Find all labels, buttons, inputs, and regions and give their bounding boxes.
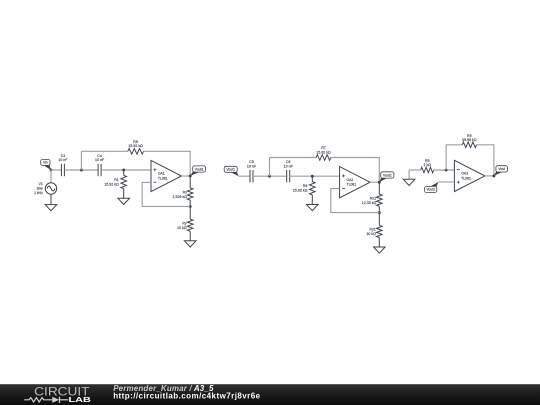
net flag Vout1	[190, 166, 205, 176]
svg-text:LAB: LAB	[69, 395, 91, 404]
resistor Rx	[173, 176, 193, 206]
node	[311, 175, 314, 178]
svg-text:Vin: Vin	[43, 161, 48, 165]
resistor R6	[128, 140, 144, 154]
voltage source V1 (sine 1 kHz)	[34, 170, 57, 205]
wire	[51, 169, 61, 171]
node Vin	[50, 169, 53, 172]
svg-text:10 nF: 10 nF	[247, 164, 257, 168]
node	[445, 169, 448, 172]
net flag Vout2	[379, 172, 394, 182]
footer text	[113, 384, 260, 400]
wire	[446, 144, 462, 146]
svg-text:Rx: Rx	[183, 190, 188, 194]
node	[268, 175, 271, 178]
svg-text:1 kHz: 1 kHz	[34, 191, 43, 195]
wire	[269, 158, 271, 177]
svg-text:V1: V1	[39, 182, 43, 186]
svg-text:Vout: Vout	[498, 167, 505, 171]
svg-text:OA3: OA3	[461, 172, 468, 176]
svg-text:1.529 kΩ: 1.529 kΩ	[173, 195, 188, 199]
resistor R8	[293, 176, 315, 204]
svg-text:OA1: OA1	[158, 172, 165, 176]
node Vout1	[189, 175, 192, 178]
svg-text:TL081: TL081	[158, 177, 168, 181]
svg-text:Vout2: Vout2	[426, 188, 435, 192]
svg-text:R1: R1	[114, 178, 119, 182]
svg-text:Vout2: Vout2	[383, 173, 392, 177]
net flag Vout	[494, 166, 508, 176]
wire	[64, 169, 98, 171]
wire	[144, 151, 191, 176]
resistor R9	[462, 134, 477, 148]
net flag Vin	[41, 160, 51, 171]
node	[189, 205, 192, 208]
ground	[45, 205, 57, 211]
node	[122, 169, 125, 172]
ground	[403, 179, 415, 185]
svg-text:OA2: OA2	[347, 178, 354, 182]
svg-text:Ry: Ry	[182, 221, 187, 225]
wire	[434, 169, 455, 171]
wire	[485, 175, 494, 177]
svg-text:Vout1: Vout1	[195, 167, 204, 171]
wire	[239, 175, 250, 177]
ground	[374, 247, 386, 253]
resistor R7	[316, 146, 331, 160]
svg-text:39.98 kΩ: 39.98 kΩ	[462, 138, 477, 142]
ground	[408, 170, 410, 179]
wire	[101, 169, 151, 171]
wire	[409, 169, 421, 171]
svg-text:10 nF: 10 nF	[284, 164, 294, 168]
wire	[142, 182, 190, 206]
svg-text:15.92 kΩ: 15.92 kΩ	[128, 144, 143, 148]
resistor Ry	[177, 206, 193, 240]
resistor Ry1	[366, 213, 382, 247]
svg-text:Vout1: Vout1	[226, 168, 235, 172]
op-amp OA1 (TL081)	[151, 160, 182, 191]
svg-text:15.92 kΩ: 15.92 kΩ	[316, 150, 331, 154]
wire	[270, 157, 317, 159]
capacitor C3	[58, 154, 68, 176]
node	[378, 211, 381, 214]
net flag Vout1	[224, 166, 239, 176]
wire	[331, 189, 380, 213]
svg-text:sine: sine	[37, 187, 43, 191]
svg-text:http://circuitlab.com/c4ktw7rj: http://circuitlab.com/c4ktw7rj8vr6e	[113, 391, 260, 400]
node	[80, 169, 83, 172]
wire	[290, 175, 340, 177]
svg-text:12.35 kΩ: 12.35 kΩ	[362, 201, 377, 205]
svg-text:Ry1: Ry1	[369, 228, 375, 232]
svg-text:10 kΩ: 10 kΩ	[177, 226, 187, 230]
svg-text:15.92 kΩ: 15.92 kΩ	[293, 189, 308, 193]
svg-text:TL081: TL081	[461, 176, 471, 180]
footer bar	[0, 384, 540, 405]
svg-text:10 nF: 10 nF	[95, 158, 105, 162]
capacitor C5	[247, 160, 257, 182]
wire	[253, 175, 287, 177]
node Vout	[492, 174, 495, 177]
CircuitLab logo	[24, 385, 91, 405]
ground	[118, 198, 130, 204]
svg-text:10 kΩ: 10 kΩ	[366, 232, 376, 236]
node Vout2	[378, 181, 381, 184]
op-amp OA2 (TL081)	[340, 167, 371, 198]
wire	[80, 151, 82, 170]
wire	[81, 150, 127, 152]
resistor Rx1	[362, 182, 382, 212]
svg-text:10 nF: 10 nF	[58, 158, 68, 162]
capacitor C4	[95, 154, 105, 176]
capacitor C6	[284, 160, 294, 182]
svg-text:1 kΩ: 1 kΩ	[423, 163, 431, 167]
ground	[307, 205, 319, 211]
op-amp OA3 (TL081)	[454, 160, 485, 191]
resistor R1	[104, 170, 126, 198]
wire	[477, 145, 494, 176]
svg-text:TL081: TL081	[347, 183, 357, 187]
svg-text:15.92 kΩ: 15.92 kΩ	[104, 182, 119, 186]
resistor R5	[421, 159, 434, 173]
svg-text:R8: R8	[303, 184, 308, 188]
net flag Vout2	[425, 182, 439, 193]
wire	[438, 181, 454, 183]
svg-text:Rx1: Rx1	[370, 197, 376, 201]
ground	[184, 241, 196, 247]
wire	[370, 181, 379, 183]
wire	[182, 175, 191, 177]
wire	[331, 158, 380, 183]
wire	[445, 145, 447, 170]
